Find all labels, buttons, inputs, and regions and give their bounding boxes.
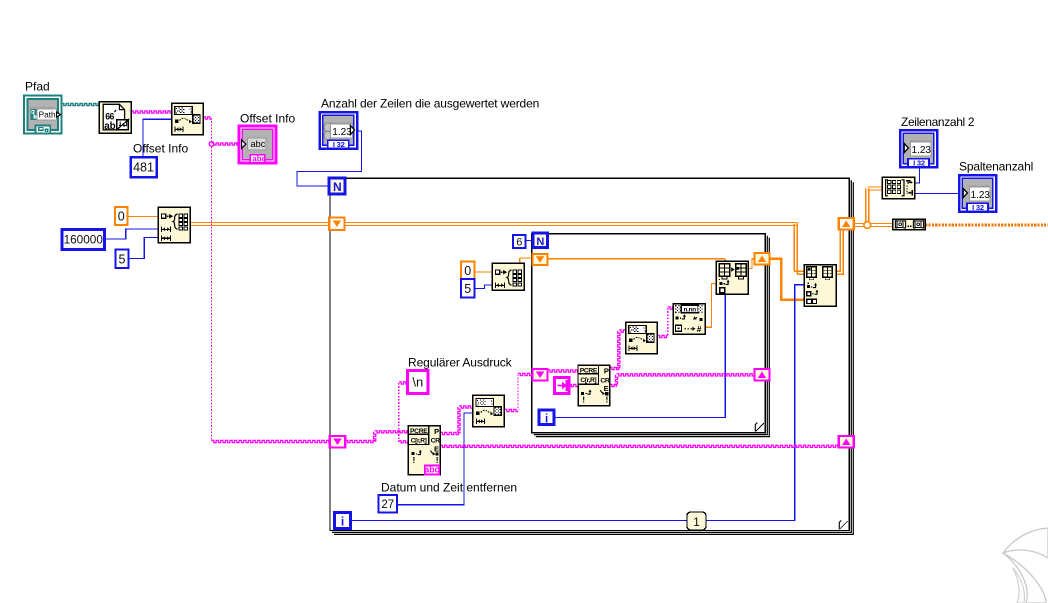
VI icon: array size (882, 177, 914, 198)
label Zeilenanzahl 2 (901, 115, 975, 129)
wire orange: inner tunnel stub to small-subset icon top (520, 258, 533, 263)
svg-text:E: E (434, 444, 439, 453)
wire pink: PCRE1 out to jog (440, 432, 459, 434)
wire pink: PCRE2 P jog up (618, 331, 620, 369)
wire pink: jog to to-number input (668, 307, 674, 309)
wire blue: array-size to Zeilenanzahl 2 (915, 167, 920, 183)
wire 2D-array orange: index-array out up to right tunnel (836, 230, 843, 275)
wire 2D-array orange: right tunnel to junction to reshape icon (854, 224, 893, 227)
svg-text:E: E (604, 384, 609, 393)
inner right pink tunnel (755, 369, 770, 381)
wire orange: constant 0 to small-subset VI (475, 271, 493, 273)
inner loop iteration terminal i (539, 410, 554, 425)
VI icon: decimal string to number (673, 304, 705, 335)
constant 1 (loop increment) (687, 512, 706, 530)
svg-text:C[r,R]: C[r,R] (411, 437, 427, 444)
control: Anzahl der Zeilen (I32) (320, 112, 358, 149)
wire pink: match3 out (657, 335, 668, 337)
constant linefeed \n (408, 371, 429, 394)
wire pink dotted: linefeed down to regex input (398, 383, 400, 442)
label Offset Info (indicator) (240, 112, 295, 126)
outer loop iteration terminal i (335, 513, 351, 529)
VI icon: PCRE match regex (inner) (578, 365, 610, 405)
svg-text:5: 5 (464, 282, 471, 296)
wire pink: PCRE1 E out across loop to right tunnel (440, 445, 839, 447)
wire pink dotted: match3 jog up (667, 308, 669, 337)
label Datum und Zeit entfernen (381, 481, 517, 495)
svg-text:!: ! (436, 455, 439, 465)
svg-text:1.23: 1.23 (332, 127, 352, 138)
orange wire junction dot (864, 222, 871, 229)
wire pink: read-file VI to match-pattern VI (131, 111, 172, 113)
constant 160000 (62, 230, 105, 250)
wire blue: inner 5 constant to small-subset VI (475, 285, 493, 289)
wire orange: inner left tunnel to insert-array icon (548, 259, 726, 261)
wire pink dotted: long vertical run (211, 118, 213, 442)
outer right orange tunnel (839, 218, 854, 230)
svg-text:abc: abc (252, 155, 266, 164)
wire blue: 481 constant to match-pattern VI (143, 119, 172, 157)
svg-text:Anzahl der Zeilen die ausgewer: Anzahl der Zeilen die ausgewertet werden (321, 97, 539, 111)
svg-text:Offset Info: Offset Info (133, 142, 188, 156)
wire pink: jog to match2 input (459, 406, 473, 408)
wire pink: PCRE2 P out (610, 367, 619, 369)
wire pink: inner tunnel to PCRE2 (548, 370, 578, 372)
wire orange dashed array out to image edge (925, 224, 1048, 227)
svg-text:ab: ab (104, 121, 115, 132)
svg-text:1: 1 (693, 515, 700, 529)
svg-text:27: 27 (381, 499, 394, 511)
wire 2D-array orange: down-leg into index-array icon (794, 223, 804, 275)
wire pink: junction to Offset Info indicator (212, 143, 240, 145)
wire pink: jog to inner left tunnel (518, 373, 533, 375)
svg-text:P: P (434, 427, 439, 436)
wire pink: jog to PCRE subject input (375, 431, 409, 433)
label Regul&#228;rer Ausdruck (408, 356, 513, 370)
svg-text:I 32: I 32 (913, 158, 925, 167)
label Anzahl der Zeilen die ausgewertet werden (321, 97, 539, 111)
VI icon: match pattern 1 (172, 103, 204, 135)
svg-text:Path: Path (39, 110, 56, 120)
indicator: Offset Info (string) (239, 126, 276, 164)
svg-text:i: i (545, 413, 548, 425)
inner right orange tunnel (755, 253, 770, 265)
svg-text:Spaltenanzahl: Spaltenanzahl (959, 160, 1033, 174)
svg-text:0: 0 (118, 210, 125, 224)
wire pink: vertical run to outer left tunnel (212, 440, 330, 442)
outer loop resize corner (839, 520, 848, 529)
constant 481 (131, 157, 157, 177)
svg-text:5: 5 (119, 252, 126, 266)
svg-text:I 32: I 32 (333, 140, 345, 149)
inner loop count terminal N (533, 233, 548, 248)
outer for-loop frame (330, 178, 853, 534)
svg-text:1.23: 1.23 (912, 145, 932, 156)
svg-text:i: i (341, 515, 344, 529)
constant 6 (513, 235, 526, 248)
wire pink: match2 out to jog (505, 409, 519, 411)
outer loop count terminal N (329, 178, 345, 194)
svg-text:160000: 160000 (64, 233, 104, 247)
outer right pink tunnel (839, 436, 854, 448)
constant 0 inner (461, 262, 475, 280)
VI icon: index array (804, 265, 836, 306)
wire pink: PCRE2 E out stub (610, 384, 617, 386)
pink wire junction dot (209, 142, 214, 147)
svg-text:N: N (536, 236, 544, 248)
wire blue: outer i past 1 constant up to index-array icon (351, 285, 805, 521)
wire blue: 5 constant to subset VI (129, 238, 159, 259)
label Pfad (25, 80, 50, 94)
wire blue: 27 constant to match-pattern offset (397, 413, 473, 505)
VI icon: array subset (file offsets) (158, 207, 190, 243)
wire blue: array-size to Spaltenanzahl (915, 193, 959, 195)
svg-text:Pfad: Pfad (25, 80, 50, 94)
wire orange: constant 0 to subset VI (128, 216, 159, 218)
VI icon: insert into array (716, 261, 748, 294)
wire pink: E jog up (615, 375, 617, 386)
svg-text:481: 481 (133, 161, 154, 175)
svg-text:\n: \n (412, 375, 423, 390)
magenta element-arrow box (555, 378, 570, 394)
svg-text:#: # (697, 324, 702, 334)
inner left orange tunnel (533, 254, 548, 265)
svg-text:0: 0 (464, 264, 471, 278)
svg-text:N: N (333, 180, 342, 194)
wire pink: into PCRE regex input (399, 441, 409, 443)
svg-text:Offset Info: Offset Info (240, 112, 295, 126)
inner loop resize corner (755, 423, 764, 432)
label Offset Info (constant) (133, 142, 188, 156)
svg-text:abc: abc (424, 465, 439, 475)
VI icon: string subset (inner) (492, 263, 524, 290)
svg-text:!: ! (582, 395, 585, 405)
label Spaltenanzahl (959, 160, 1033, 174)
constant 27 (379, 495, 398, 513)
svg-text:Zeilenanzahl 2: Zeilenanzahl 2 (901, 115, 975, 129)
svg-text:!: ! (606, 395, 609, 405)
wire 1D-array orange: inner right tunnel to index-array icon (770, 259, 805, 300)
indicator: Spaltenanzahl (I32) (959, 175, 996, 212)
wire orange: to-number out up into insert-array icon (705, 284, 716, 328)
VI icon: array constant/convert (893, 219, 926, 229)
wire pink: PCRE1 out jog up (458, 407, 460, 434)
constant 0 (orange) (115, 207, 128, 225)
wire pink: jog to match3 input (619, 330, 626, 332)
wire blue: 6 constant to inner N (526, 240, 534, 242)
control: Pfad (path) (24, 96, 62, 134)
wire pink: linefeed constant stub (399, 382, 408, 384)
indicator: Zeilenanzahl 2 (I32) (900, 130, 937, 167)
wire pink: PCRE2 out across to inner right tunnel (617, 374, 755, 376)
inner left pink tunnel (533, 369, 548, 381)
VI icon: PCRE match regex (Datum und Zeit entfernen) (408, 426, 440, 475)
wire 2D-array orange: junction up to array-size icon (866, 187, 883, 223)
wire blue: 160000 constant to subset VI (105, 229, 159, 239)
watermark swoosh (1003, 528, 1048, 603)
wire 2D-array orange: subset out to outer loop left tunnel (190, 223, 329, 226)
VI icon: match pattern 2 (473, 395, 505, 427)
svg-text:Regulärer Ausdruck: Regulärer Ausdruck (408, 356, 513, 370)
svg-text:P: P (604, 367, 609, 376)
outer left orange tunnel (329, 218, 344, 231)
svg-text:Datum und Zeit entfernen: Datum und Zeit entfernen (381, 481, 517, 495)
svg-text:I 32: I 32 (972, 203, 984, 212)
wire blue: count control to outer loop N (297, 131, 362, 186)
constant 5 (116, 250, 129, 269)
outer left pink tunnel (330, 436, 346, 448)
wire teal path: Pfad control to read-file VI (62, 103, 100, 105)
wire pink: jog up (374, 432, 376, 442)
svg-text:C[r,R]: C[r,R] (580, 377, 596, 384)
svg-text:abc: abc (251, 139, 266, 149)
svg-text:6: 6 (516, 236, 522, 248)
wire blue: inner i to insert-array icon (554, 294, 725, 418)
wire 2D-array orange: left tunnel to down-leg (345, 223, 798, 226)
svg-text:n.nn: n.nn (684, 306, 697, 313)
svg-text:1.23: 1.23 (971, 190, 991, 201)
wire pink: match-pattern out to down-run (203, 117, 212, 119)
svg-text:!: ! (413, 455, 416, 465)
svg-text:66: 66 (105, 112, 114, 122)
VI icon: match pattern 3 (626, 322, 658, 354)
constant 5 inner (461, 279, 475, 298)
wire orange: insert-array out to inner right tunnel (748, 259, 754, 269)
wire pink: arrow-box to PCRE2 (569, 384, 578, 386)
inner for-loop frame (532, 234, 770, 437)
VI icon: read from text file (99, 102, 131, 134)
wire pink: left tunnel to jog (345, 440, 374, 442)
wire pink dotted: match2 jog up (517, 375, 519, 411)
